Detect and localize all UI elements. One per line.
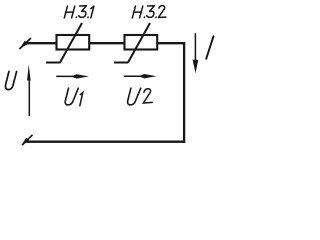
label I (current) bbox=[206, 36, 213, 59]
wire NE2 to top-right corner bbox=[156, 42, 185, 44]
label U2 bbox=[128, 88, 153, 105]
wire right vertical bbox=[183, 42, 185, 143]
NE1 diagonal stroke bbox=[60, 23, 82, 63]
wire bottom bbox=[27, 141, 186, 143]
arrow U2 (right) bbox=[124, 74, 157, 78]
label U1 bbox=[65, 88, 83, 106]
nonlinear element NE1 body bbox=[57, 35, 90, 50]
terminal top-left bbox=[19, 38, 31, 49]
NE1 foot bbox=[46, 62, 61, 64]
NE2 diagonal stroke bbox=[128, 23, 150, 63]
label U (source voltage) bbox=[5, 72, 16, 90]
wire top-left (terminal to NE1) bbox=[25, 42, 58, 44]
nonlinear element NE2 body bbox=[125, 35, 158, 50]
arrow U (up) bbox=[27, 64, 31, 116]
arrow U1 (right) bbox=[56, 74, 89, 78]
NE2 foot bbox=[114, 62, 129, 64]
label NE1 "Н.З.1" bbox=[64, 6, 94, 18]
label NE2 "Н.З.2" bbox=[132, 6, 166, 18]
terminal bottom-left bbox=[22, 135, 33, 145]
arrow I (down) bbox=[193, 33, 199, 73]
wire between NE1 and NE2 bbox=[88, 42, 125, 44]
